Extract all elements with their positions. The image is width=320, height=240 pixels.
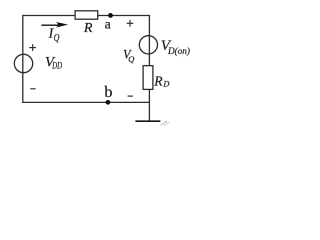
- label IQ: [48, 26, 60, 45]
- wire top rail left (corner to resistor R): [23, 15, 76, 17]
- svg-text:R: R: [83, 21, 93, 36]
- node b junction dot: [106, 100, 111, 105]
- wire right branch (top-right corner down through VD(on) and RD to ground): [148, 15, 150, 121]
- label VD(on): [161, 38, 190, 56]
- label VDD: [45, 55, 62, 71]
- label RD: [153, 73, 169, 88]
- wire bottom rail (bottom-left corner to junction under RD): [23, 101, 150, 103]
- svg-text:b: b: [104, 82, 112, 101]
- wire left branch (top-left corner down through VDD to bottom-left corner): [22, 15, 24, 103]
- plus sign (VDD): [29, 44, 36, 51]
- svg-text:a: a: [105, 16, 111, 31]
- resistor RD: [143, 66, 153, 90]
- ground: [135, 121, 169, 126]
- source VDD circle: [14, 54, 32, 72]
- label a: [105, 16, 111, 31]
- node a junction dot: [108, 13, 113, 18]
- minus sign (bottom of VQ): [128, 95, 133, 97]
- label b: [104, 82, 112, 101]
- source VD(on) circle: [139, 36, 157, 54]
- wire top rail right (resistor R to top-right corner): [97, 15, 150, 17]
- minus sign (VDD): [30, 88, 35, 90]
- plus sign (top of VQ): [127, 20, 134, 27]
- label R: [83, 21, 93, 36]
- current arrow IQ: [41, 22, 68, 28]
- label VQ: [123, 48, 135, 64]
- resistor R: [75, 11, 98, 19]
